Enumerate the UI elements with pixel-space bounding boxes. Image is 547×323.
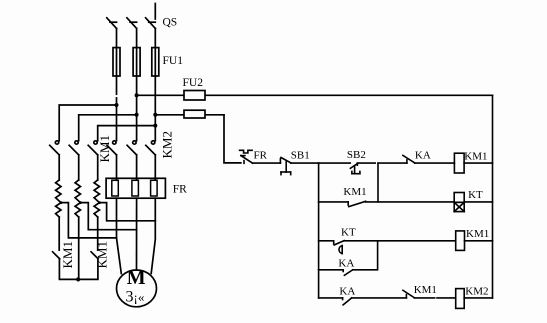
svg-text:M: M xyxy=(127,267,146,289)
wire FR contact to SB1 xyxy=(253,162,281,164)
svg-text:SB2: SB2 xyxy=(347,149,366,161)
wire row3 coil to right bus xyxy=(465,240,493,242)
wire phase1 below FU1 (with crossover gap) xyxy=(116,76,118,141)
wire R2 bottom to star point xyxy=(78,217,80,279)
svg-text:3¡«: 3¡« xyxy=(126,289,145,306)
wire row4 KM1 contact to coil KM2 (with small gap) xyxy=(414,297,434,299)
wire KM2 pole2 to FR box xyxy=(136,155,138,180)
svg-text:QS: QS xyxy=(163,17,178,29)
wire KM1 star contact1 to star point xyxy=(59,260,78,280)
resistor R2 (winding 2) xyxy=(75,180,80,217)
coil KM1 (row1) xyxy=(454,153,464,173)
motor M circle xyxy=(117,270,157,307)
svg-text:KM1: KM1 xyxy=(95,241,110,268)
node tap1 xyxy=(60,201,63,204)
wire left rung bus xyxy=(318,163,320,298)
svg-text:KM1: KM1 xyxy=(466,228,489,240)
wire phase3 below FU1 xyxy=(154,76,156,141)
wire row2 to KT coil xyxy=(366,201,455,203)
svg-text:KM2: KM2 xyxy=(160,131,175,158)
wire FR to motor line3 xyxy=(151,198,155,273)
wire row3 from left bus xyxy=(319,240,334,242)
fuse FU2 lower xyxy=(155,110,224,118)
svg-text:FU2: FU2 xyxy=(183,77,204,89)
svg-text:KM1: KM1 xyxy=(97,135,112,162)
relay contact KA (row3 parallel, NO) xyxy=(343,270,353,276)
wire row4 KA to KM1 contact xyxy=(352,297,407,299)
wire KM1 pole1 to resistor R1 xyxy=(58,155,60,180)
wire KM2 coil to right bus xyxy=(464,297,492,299)
svg-text:KM1: KM1 xyxy=(464,150,487,162)
svg-text:KM2: KM2 xyxy=(465,285,488,297)
disconnect switch QS pole 3 xyxy=(146,18,156,29)
svg-text:FR: FR xyxy=(173,184,187,196)
node phase2/FU2 junction xyxy=(135,93,139,97)
wire KM1 pole2 to resistor R2 xyxy=(78,155,80,180)
svg-text:KT: KT xyxy=(468,189,483,201)
fuse FU1 pole1 xyxy=(113,48,120,76)
wire KM1 star contact2 to star point xyxy=(78,260,98,280)
node phase3/FU2b junction xyxy=(153,113,157,117)
supply stub L3 xyxy=(154,4,156,20)
contactor KM1 star contact 2 xyxy=(91,252,98,259)
svg-text:KM1: KM1 xyxy=(414,284,437,296)
wire tap3 to motor line 3 xyxy=(100,203,156,221)
wire SB2 to node B (with small gap) xyxy=(357,162,375,164)
wire phase1 QS to FU1 xyxy=(116,28,118,47)
wire KA contact to coil KM1 xyxy=(415,162,455,164)
wire coil KM1 to right bus xyxy=(464,162,492,164)
svg-text:KA: KA xyxy=(415,149,431,161)
wire phase2 QS to FU1 xyxy=(136,28,138,47)
wire branch2 to KM1 pole2 xyxy=(79,115,137,141)
svg-text:SB1: SB1 xyxy=(291,150,310,162)
resistor R3 (winding 3) xyxy=(94,180,99,217)
wire KT coil to right bus xyxy=(464,201,492,203)
wire KA branch up to row3 xyxy=(353,241,378,270)
node star point xyxy=(76,277,80,281)
wire FU2 lower to control row1 xyxy=(224,115,241,163)
contactor KM2 main contact pole2 xyxy=(127,141,137,155)
resistor R1 (starting autotransformer winding 1) xyxy=(56,180,61,217)
fuse FU1 pole2 xyxy=(133,48,140,76)
svg-text:KA: KA xyxy=(338,257,354,269)
wire tap2 to motor line 2 xyxy=(81,203,137,230)
svg-text:KA: KA xyxy=(339,285,355,297)
wire right bus xyxy=(492,95,494,298)
contactor auxiliary contact KM1 (row4) xyxy=(403,290,414,298)
contactor KM1 main contact pole1 xyxy=(50,141,60,155)
contactor KM1 main contact pole3 xyxy=(88,141,98,155)
disconnect switch QS pole 1 xyxy=(107,18,117,29)
pushbutton SB2 (NO start) xyxy=(350,163,360,174)
wire phase2 below FU1 xyxy=(136,76,138,141)
wire R3 bottom to KM1 star contact 2 xyxy=(97,217,99,250)
node tap3 xyxy=(98,201,101,204)
thermal relay FR heater box xyxy=(106,178,165,198)
fuse FU2 upper xyxy=(137,91,493,101)
wire row4 from left bus xyxy=(319,297,343,299)
relay contact KA (row4, NO) xyxy=(343,298,352,305)
contactor KM2 main contact pole1 xyxy=(107,141,117,155)
time relay contact KT (row3, delayed close NO) xyxy=(334,241,345,254)
svg-text:KT: KT xyxy=(341,226,356,238)
wire branch3 to KM1 pole3 xyxy=(98,126,156,141)
svg-text:KM1: KM1 xyxy=(343,186,366,198)
wire FR to motor line2 xyxy=(136,198,138,270)
wire row1 node A to SB2 xyxy=(319,162,351,164)
wire FR to motor line1 xyxy=(117,198,122,273)
svg-text:FR: FR xyxy=(254,150,268,162)
node phase3/branch3 junction xyxy=(153,124,157,128)
wire phase3 QS to FU1 xyxy=(154,28,156,47)
wire KM2 pole3 to FR box xyxy=(154,155,156,180)
node tap2 xyxy=(79,201,82,204)
svg-text:KM1: KM1 xyxy=(60,241,75,268)
svg-text:FU1: FU1 xyxy=(163,55,184,67)
thermal relay FR NC contact xyxy=(240,150,253,163)
node phase1/branch1 junction xyxy=(115,103,119,107)
fuse FU1 pole3 xyxy=(152,48,159,76)
wire R1 bottom to KM1 star contact 1 xyxy=(58,217,60,250)
wire row1 node B to KA contact xyxy=(378,162,407,164)
wire KA parallel branch from left bus xyxy=(319,269,344,271)
disconnect switch QS pole 2 xyxy=(127,18,137,29)
pushbutton SB1 (NC stop) xyxy=(280,158,290,175)
contactor auxiliary contact KM1 (row2, self-hold) xyxy=(348,201,365,206)
wire SB1 to node A xyxy=(291,162,319,164)
relay contact KA (row1, NO) xyxy=(403,155,415,163)
wire row2 from left bus xyxy=(319,201,349,203)
wire KM2 pole1 to FR box xyxy=(116,155,118,180)
coil KM2 (row4) xyxy=(456,289,465,309)
coil KM1 (row3) xyxy=(456,231,465,251)
contactor KM1 main contact pole2 xyxy=(69,141,79,155)
node phase2/branch2 junction xyxy=(135,113,139,117)
wire tap1 to motor line 1 xyxy=(61,203,117,238)
wire KM1 pole3 to resistor R3 xyxy=(97,155,99,180)
wire node B vertical xyxy=(377,163,379,202)
wire row3 KT contact to coil KM1 xyxy=(344,240,456,242)
contactor KM1 star contact 1 xyxy=(53,252,60,259)
coil KT (time relay) xyxy=(454,193,464,212)
contactor KM2 main contact pole3 xyxy=(146,141,156,155)
wire branch1 to KM1 pole1 xyxy=(59,105,116,141)
